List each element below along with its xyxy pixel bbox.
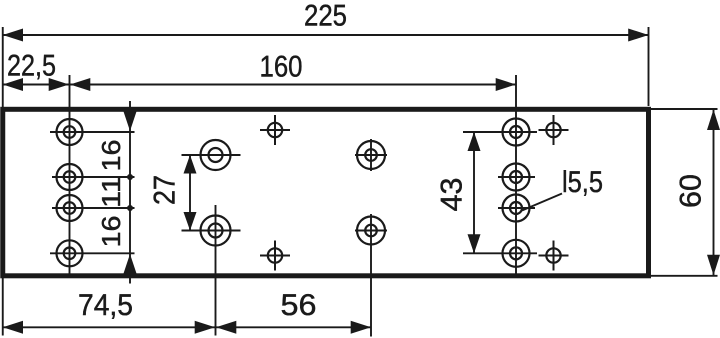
svg-text:27: 27 — [148, 175, 181, 205]
arrowhead 27 top (up) — [184, 155, 197, 174]
hole L4 — [57, 240, 83, 266]
hole N-bottom axis vertical to bottom dimension — [370, 214, 372, 337]
svg-text:60: 60 — [674, 174, 707, 208]
hole N-bottom — [357, 217, 385, 245]
extension line left top (x=2.75) — [2, 27, 4, 107]
hole L3 — [57, 195, 83, 221]
hole N-top — [357, 141, 385, 169]
hole R4 crosshair — [463, 252, 537, 254]
svg-text:16: 16 — [96, 216, 126, 248]
hole R4 — [503, 240, 530, 267]
small hole mark arms bottom right — [539, 255, 569, 257]
small hole mark arms top right — [539, 129, 569, 131]
svg-text:74,5: 74,5 — [78, 289, 133, 322]
hole M-A — [201, 140, 231, 170]
arrowhead 56 right — [351, 321, 371, 334]
extension line bottom left (x=2.75) — [2, 278, 4, 336]
arrowhead 160 right — [496, 78, 516, 91]
hole L1 crosshair — [50, 131, 135, 133]
hole L2 crosshair — [52, 176, 135, 178]
svg-text:160: 160 — [260, 51, 303, 84]
hole N-bottom crosshair horizontal — [355, 230, 387, 232]
small hole mark bottom right — [546, 248, 560, 262]
axis line right hole column (x=516) — [515, 75, 517, 276]
hole R1 — [503, 119, 530, 146]
arrowhead 225 right — [628, 29, 648, 42]
arrowhead 22,5 right — [49, 78, 69, 91]
hole R3 crosshair — [498, 207, 535, 209]
hole M-B crosshair horizontal — [182, 230, 241, 232]
extension line right top (x=648.5) — [648, 27, 650, 106]
extension line 60 top — [651, 108, 718, 110]
hole R2 — [503, 164, 530, 191]
arrowhead 74,5 right — [195, 321, 215, 334]
hole L4 crosshair — [50, 252, 135, 254]
arrowhead 225 left — [3, 29, 23, 42]
svg-text:22,5: 22,5 — [7, 50, 56, 83]
arrowhead 27 bottom (down) — [184, 212, 197, 231]
arrowhead 60 top (up) — [707, 110, 720, 131]
plate outline — [3, 109, 649, 275]
hole L3 crosshair — [52, 207, 135, 209]
small hole mark top middle — [268, 123, 282, 137]
hole M-B — [201, 216, 231, 246]
small hole mark arms bottom middle — [260, 255, 290, 257]
dimension line 225 — [3, 34, 649, 36]
svg-text:16: 16 — [96, 140, 126, 172]
dimension line 74,5 and 56 — [3, 326, 371, 328]
arrowhead 60 bottom (down) — [707, 255, 720, 275]
dimension line 43 (x=474) — [473, 132, 475, 253]
small hole mark top right — [546, 123, 560, 137]
small hole mark bottom middle — [268, 248, 282, 262]
arrowhead 56 left — [216, 321, 236, 334]
hole R3 — [503, 195, 530, 222]
chain dot at L2 — [127, 174, 133, 180]
chain dimension line 16/11/16 (x=130) — [129, 101, 131, 284]
hole N-top crosshair horizontal — [355, 154, 387, 156]
arrowhead chain top (down) — [124, 112, 137, 132]
arrowhead chain bottom (up) — [124, 254, 137, 274]
dimension line 60 (x=713.5) — [713, 109, 715, 276]
arrowhead 43 top (up) — [468, 132, 481, 151]
hole M-A crosshair — [182, 154, 241, 156]
hole N-top crosshair vertical — [370, 139, 372, 171]
hole L2 — [57, 164, 83, 190]
svg-text:11: 11 — [96, 176, 126, 208]
hole R2 crosshair — [498, 176, 535, 178]
svg-text:225: 225 — [304, 0, 347, 33]
arrowhead 74,5 left — [3, 321, 23, 334]
arrowhead 22,5 left — [3, 78, 23, 91]
arrowhead 43 bottom (down) — [468, 234, 481, 253]
hole R1 crosshair — [463, 131, 537, 133]
dimension line 27 (x=190) — [189, 155, 191, 231]
small hole mark arms top middle — [260, 129, 290, 131]
svg-text:43: 43 — [435, 178, 468, 212]
hole L1 — [57, 119, 83, 145]
axis line left hole column (x=69.5) — [69, 75, 71, 276]
leader line for 5,5 — [522, 194, 562, 211]
svg-text:l5,5: l5,5 — [562, 166, 603, 199]
extension line 60 bottom — [651, 275, 718, 277]
hole M-B axis vertical to bottom dimension — [215, 205, 217, 336]
dimension line 22,5 and 160 — [3, 84, 516, 86]
chain dot at L3 — [127, 205, 133, 211]
arrowhead 160 left — [70, 78, 90, 91]
svg-text:56: 56 — [281, 289, 317, 322]
